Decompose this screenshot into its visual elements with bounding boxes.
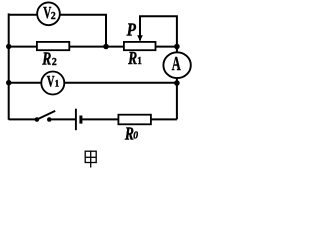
svg-text:P: P xyxy=(126,19,137,39)
svg-text:1: 1 xyxy=(55,78,59,88)
resistor R0 xyxy=(118,115,150,125)
wire: top row to V2 xyxy=(9,14,38,16)
node: junction ammeter bottom / V1 row xyxy=(174,80,180,86)
voltmeter V2 xyxy=(37,2,60,25)
wire: R2/R1 row xyxy=(9,46,177,48)
node: junction V2 drop / R2 row xyxy=(103,44,109,50)
battery cell: short negative plate xyxy=(79,116,82,124)
resistor R2 xyxy=(37,42,69,50)
node: junction R1 right / slider xyxy=(174,44,180,50)
ammeter A xyxy=(163,52,190,78)
wire: V2 to corner and drop to R2 row xyxy=(60,15,106,47)
rheostat R1 xyxy=(124,42,156,50)
svg-text:2: 2 xyxy=(51,11,56,22)
svg-text:0: 0 xyxy=(133,130,138,141)
svg-text:R: R xyxy=(127,50,137,69)
switch S1 (open knife switch) xyxy=(35,117,40,122)
wire: bottom row xyxy=(9,118,177,120)
battery cell: long positive plate xyxy=(75,109,77,131)
node: junction left-V1 row xyxy=(6,80,11,85)
voltmeter V1 xyxy=(41,72,64,95)
wire: slider top link xyxy=(140,16,177,46)
wire: top-left loop, left vertical bus xyxy=(8,13,10,119)
svg-text:V: V xyxy=(47,72,55,90)
wire: V1 row xyxy=(9,82,177,84)
node: junction left-R2 row xyxy=(6,44,11,49)
svg-text:2: 2 xyxy=(52,57,57,68)
rheostat slider arrowhead (wiper onto R1) xyxy=(137,35,143,41)
svg-text:A: A xyxy=(172,52,181,75)
wire: ammeter stubs and right vertical xyxy=(176,47,178,120)
svg-text:R: R xyxy=(41,50,51,69)
caption 甲 (figure label, drawn as strokes) xyxy=(85,151,96,168)
svg-text:1: 1 xyxy=(137,56,142,67)
